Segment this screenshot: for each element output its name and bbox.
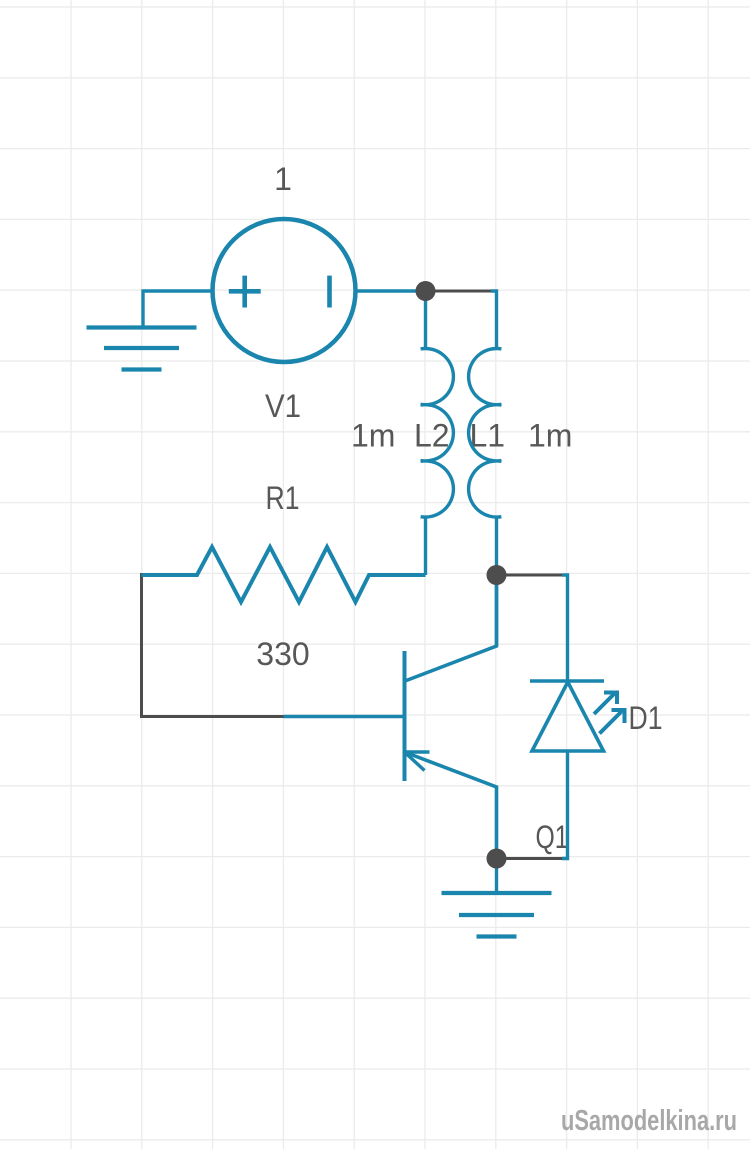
- transistor Q1 emitter arrow: [405, 752, 430, 771]
- svg-text:L2: L2: [414, 418, 450, 454]
- LED D1 light arrow 2: [600, 709, 627, 734]
- ground (bottom, at Q1 emitter): [442, 893, 552, 937]
- transistor Q1 collector: [405, 575, 497, 681]
- svg-text:uSamodelkina.ru: uSamodelkina.ru: [561, 1105, 737, 1137]
- node A (V1 / L2 / L1 junction): [416, 281, 436, 301]
- inductor L2 (left coil, arcs bulge right): [421, 349, 454, 518]
- V1 plus symbol: [229, 276, 261, 308]
- wire gray: node B to D1 branch: [497, 574, 568, 577]
- svg-text:D1: D1: [629, 700, 663, 736]
- LED D1 light arrow 1: [594, 691, 619, 714]
- V1 minus symbol: [327, 276, 332, 308]
- wire: L1 bottom through node B to collector: [495, 517, 498, 646]
- voltage source V1 circle: [213, 219, 356, 362]
- wire: L2 bottom to resistor wire: [424, 517, 427, 575]
- transistor Q1 base bar: [403, 651, 407, 781]
- node B (L1 / collector / D1 junction): [487, 565, 507, 585]
- node C (emitter / D1 / ground junction): [487, 849, 507, 869]
- wire gray: R1 left lead down and across to base: [142, 573, 286, 717]
- wire: node A down to L2 top: [424, 291, 427, 349]
- wire: node C down to ground: [495, 859, 498, 892]
- wire gray: node A to L1 top corner: [426, 290, 497, 293]
- wire: D1 top corner: [562, 575, 568, 681]
- svg-text:330: 330: [256, 636, 309, 672]
- ground (left, at V1): [87, 328, 197, 370]
- svg-text:V1: V1: [265, 388, 301, 424]
- svg-text:Q1: Q1: [536, 819, 569, 855]
- resistor R1 zigzag: [142, 547, 426, 602]
- LED D1 triangle: [532, 682, 604, 751]
- LED D1 cathode bar: [530, 679, 604, 683]
- wire: L1 top corner down to L1 coil: [491, 291, 497, 349]
- svg-text:1m: 1m: [351, 418, 395, 454]
- wire: D1 bottom corner: [562, 751, 568, 859]
- wire gray: node C to D1 bottom branch: [497, 857, 568, 860]
- wire: V1 right lead to node A: [356, 289, 426, 292]
- svg-text:1m: 1m: [528, 418, 572, 454]
- transistor Q1 emitter: [405, 752, 497, 859]
- svg-text:1: 1: [274, 161, 292, 197]
- wire: V1 left lead to ground: [143, 291, 213, 326]
- inductor L1 (right coil, arcs bulge left): [469, 349, 502, 518]
- wire: base lead (blue part): [284, 715, 405, 718]
- svg-text:R1: R1: [266, 480, 300, 516]
